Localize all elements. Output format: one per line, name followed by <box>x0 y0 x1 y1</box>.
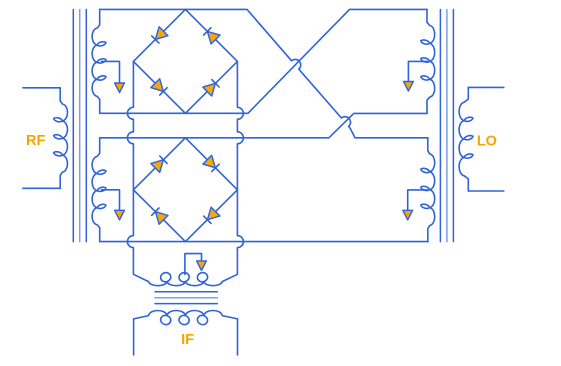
T2 secondary L5 tap arrow <box>403 210 413 220</box>
transformer T1 RF primary winding L1 <box>54 88 68 189</box>
T1 secondary L2 center tap wire <box>102 61 120 83</box>
wire bus ring1 bottom to X crossing (net B) <box>100 9 427 113</box>
transformer T1 secondary winding L2 (top) <box>92 9 106 113</box>
diode D2 (ring1 top-right, anode right corner) <box>207 31 220 44</box>
transformer T2 LO secondary winding L4 (top) <box>421 9 435 113</box>
diode D7 (ring2 bottom-left, anode bottom corner) <box>155 212 168 225</box>
svg-text:RF: RF <box>26 133 45 149</box>
T2 secondary L4 center tap wire <box>408 61 427 81</box>
wire LO port top stub <box>468 86 504 88</box>
transformer T2 LO port winding L6 <box>459 87 473 191</box>
transformer T2 core <box>439 10 441 242</box>
diode D5 (ring2 top-left, anode left corner) <box>151 160 164 173</box>
T1 secondary L2 tap arrow <box>115 83 125 93</box>
T2 secondary L5 center tap wire <box>408 190 428 211</box>
transformer T1 secondary winding L3 (bottom) <box>92 138 106 242</box>
wire RF port top stub <box>23 87 60 89</box>
wire net A ring1 top to LO with crossover hops <box>100 9 428 137</box>
diode D1 (ring1 top-left, anode top corner) <box>155 27 168 40</box>
T3 primary center tap wire <box>185 254 202 275</box>
wire LO port bottom stub <box>468 190 504 192</box>
transformer T2 secondary winding L5 (bottom) <box>421 138 435 242</box>
wire ring right corners vertical with hops <box>222 61 243 281</box>
diode ring DR2 diamond wires <box>133 138 237 242</box>
diode D6 (ring2 top-right, anode top corner) <box>203 155 216 168</box>
transformer T3 IF primary winding L7 <box>149 273 223 286</box>
transformer T3 core <box>155 291 217 293</box>
T1 secondary L3 center tap wire <box>102 190 120 211</box>
diode D8 (ring2 bottom-right, anode right corner) <box>207 207 220 220</box>
T3 primary tap arrow <box>197 261 207 271</box>
diode ring DR1 diamond wires <box>133 9 237 113</box>
wire ring left corners vertical with hops <box>127 61 148 281</box>
wire RF port bottom stub <box>23 187 60 189</box>
wire bus ring2 top to LO (net C) <box>100 113 427 137</box>
diode D3 (ring1 bottom-left, anode left corner) <box>151 79 164 92</box>
T2 secondary L4 tap arrow <box>404 82 414 92</box>
svg-text:IF: IF <box>181 332 194 348</box>
wire bus ring2 bottom to LO (net D) <box>100 241 428 243</box>
diode D4 (ring1 bottom-right, anode bottom corner) <box>203 83 216 96</box>
wire IF port left lead <box>133 319 135 355</box>
transformer T3 IF secondary winding L8 <box>134 311 238 325</box>
transformer T1 core <box>72 10 74 242</box>
svg-text:LO: LO <box>477 133 497 149</box>
T1 secondary L3 tap arrow <box>115 210 125 220</box>
wire IF port right lead <box>237 319 239 355</box>
